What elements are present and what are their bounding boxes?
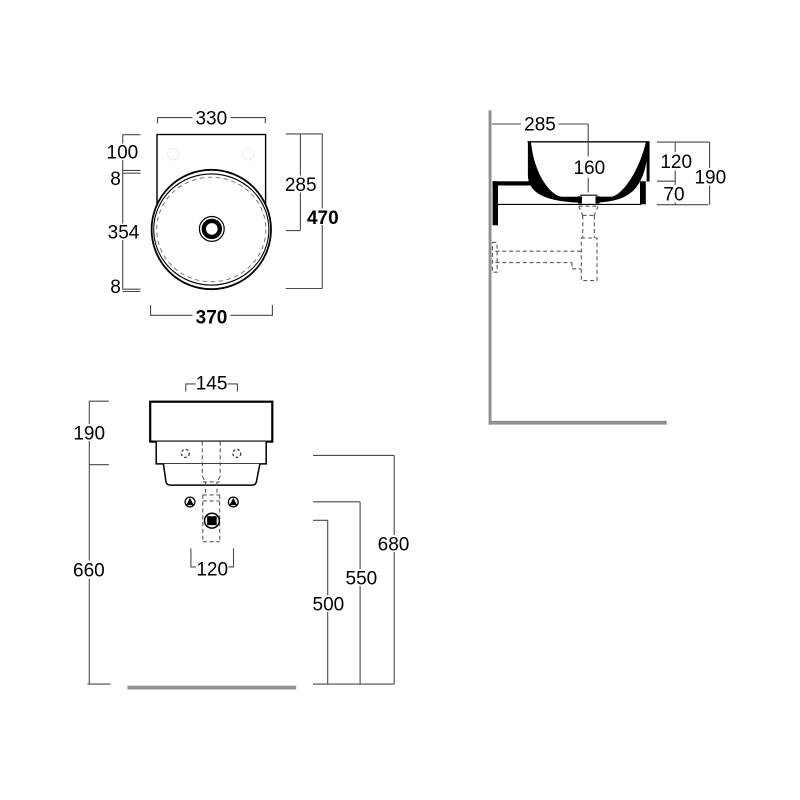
svg-text:550: 550 — [346, 569, 378, 590]
svg-text:145: 145 — [196, 374, 228, 395]
svg-text:70: 70 — [663, 185, 684, 206]
svg-text:190: 190 — [73, 424, 105, 445]
svg-text:285: 285 — [524, 115, 556, 136]
svg-text:8: 8 — [110, 169, 121, 190]
svg-text:160: 160 — [573, 158, 605, 179]
svg-text:8: 8 — [110, 277, 121, 298]
svg-text:470: 470 — [307, 208, 339, 229]
svg-text:370: 370 — [196, 307, 228, 328]
svg-text:330: 330 — [195, 108, 227, 129]
svg-text:100: 100 — [107, 143, 139, 164]
svg-text:120: 120 — [196, 560, 228, 581]
svg-text:680: 680 — [378, 535, 410, 556]
svg-text:190: 190 — [694, 168, 726, 189]
svg-text:285: 285 — [285, 175, 317, 196]
svg-text:660: 660 — [73, 561, 105, 582]
svg-text:500: 500 — [313, 595, 345, 616]
svg-text:120: 120 — [660, 152, 692, 173]
svg-text:354: 354 — [108, 223, 140, 244]
